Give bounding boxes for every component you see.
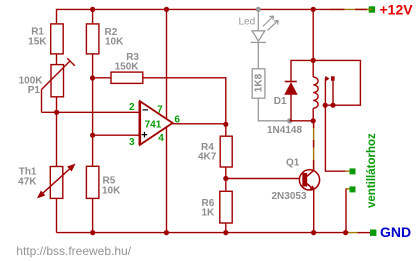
port square GND — [370, 230, 376, 236]
node R2/pin3 — [90, 133, 95, 138]
resistor R5 — [86, 166, 99, 198]
node relay coil bottom — [311, 118, 316, 123]
wire GND rail red segment — [358, 232, 371, 234]
wire olive stub into port — [367, 8, 372, 10]
wire 1K8 bottom (gray) — [258, 98, 289, 121]
wire +12V to relay coil top — [312, 9, 314, 77]
svg-text:150K: 150K — [115, 61, 140, 72]
svg-text:D1: D1 — [274, 96, 287, 107]
svg-text:2N3053: 2N3053 — [272, 191, 307, 202]
wire pin6 output — [173, 123, 226, 125]
resistor 1K8 — [252, 69, 265, 98]
wire relay to Q1 collector olive base — [313, 121, 315, 170]
svg-text:http://bss.freeweb.hu/: http://bss.freeweb.hu/ — [16, 244, 131, 258]
relay contact fixed pin — [332, 81, 334, 106]
node GND rail R6 — [223, 230, 228, 235]
svg-text:15K: 15K — [28, 37, 47, 48]
svg-text:−: − — [142, 105, 148, 117]
wire R3 left — [93, 77, 111, 79]
op-amp U1 741 triangle — [140, 101, 173, 145]
node top rail LED (gray) — [256, 7, 261, 12]
svg-text:Q1: Q1 — [286, 158, 300, 169]
node P1/Th1/pin2 — [54, 110, 59, 115]
wire base node to R6 — [225, 179, 227, 192]
wire inverting input net to pin 2 — [42, 111, 140, 113]
wire +12V rail red dashes over olive — [330, 8, 367, 10]
resistor R1 — [51, 24, 64, 54]
resistor R3 — [111, 72, 143, 83]
wire node to Th1 top — [56, 112, 58, 166]
LED cathode bar — [251, 41, 266, 43]
wire R1 bottom to P1 — [56, 54, 58, 65]
wire Q1 emitter to GND — [313, 190, 315, 233]
wire +12V rail olive segment to port — [330, 8, 370, 10]
wire relay contact common — [313, 60, 360, 105]
transistor Q1 — [299, 170, 319, 190]
thermistor Th1 double arrow — [41, 167, 72, 195]
wire LED top (gray) — [257, 9, 259, 30]
node top rail relay branch — [311, 7, 316, 12]
wire feedback node to R4 — [225, 124, 227, 136]
resistor R4 — [220, 136, 232, 167]
svg-text:Led: Led — [239, 16, 256, 27]
svg-text:2: 2 — [129, 102, 135, 113]
port square ventillatorhoz 2 — [350, 186, 356, 192]
svg-text:GND: GND — [380, 224, 411, 240]
wire GND rail olive segment — [348, 232, 358, 234]
node relay coil top — [311, 58, 316, 63]
potentiometer P1 wiper arrow — [42, 58, 75, 89]
port square +12V — [369, 6, 375, 12]
node gray/D1 anode — [287, 118, 292, 123]
node R2/R3 — [90, 75, 95, 80]
node GND rail port branch — [343, 230, 348, 235]
thermistor Th1 body — [50, 167, 63, 199]
wire op-amp V+ pin7 — [166, 9, 168, 119]
LED triangle — [252, 31, 265, 41]
svg-text:P1: P1 — [28, 85, 41, 96]
wire R5 bottom — [92, 198, 94, 232]
svg-text:47K: 47K — [18, 177, 37, 188]
wire R6 bottom — [225, 223, 227, 233]
wire port 1 olive stub — [346, 170, 350, 172]
node contact left — [323, 103, 328, 108]
wire LED to 1K8 (gray) — [257, 42, 259, 68]
node feedback/output — [223, 122, 228, 127]
port square ventillatorhoz 1 — [350, 168, 356, 174]
wire port 2 to GND rail — [345, 189, 347, 233]
node GND rail Q1 emitter — [311, 230, 316, 235]
svg-text:4: 4 — [158, 133, 164, 144]
wire R3 right to feedback node — [143, 78, 226, 125]
svg-text:1K8: 1K8 — [254, 73, 265, 92]
wire port 2 olive stub — [345, 188, 349, 190]
wire relay coil bottom — [312, 108, 314, 121]
svg-text:1K: 1K — [202, 208, 216, 219]
svg-text:+12V: +12V — [380, 2, 414, 18]
node GND rail R5 — [90, 230, 95, 235]
relay K1 coil — [313, 77, 318, 108]
wire R4 bottom — [225, 167, 227, 179]
node contact right — [330, 103, 335, 108]
resistor R6 — [220, 191, 232, 223]
svg-text:10K: 10K — [102, 186, 121, 197]
node top rail R2 — [90, 7, 95, 12]
svg-text:1N4148: 1N4148 — [267, 125, 302, 136]
wire P1 wiper tail down — [41, 90, 43, 113]
resistor R2 — [86, 24, 99, 54]
wire P1 bottom — [56, 97, 58, 113]
wire op-amp V- pin4 — [166, 128, 168, 233]
wire GND rail — [57, 232, 350, 234]
wire R2 bottom to R5 top — [92, 54, 94, 166]
potentiometer P1 body — [51, 65, 64, 97]
wire contact to port 1 — [325, 105, 345, 171]
wire base — [226, 178, 300, 180]
svg-text:ventillátorhoz: ventillátorhoz — [366, 133, 378, 208]
LED light arrow 2 — [268, 21, 279, 31]
svg-text:3: 3 — [129, 137, 135, 148]
node R4/R6/base — [223, 176, 228, 181]
wire +12V top rail — [57, 9, 331, 24]
svg-text:4K7: 4K7 — [198, 152, 217, 163]
svg-text:10K: 10K — [105, 37, 124, 48]
node GND rail op-amp V- — [164, 230, 169, 235]
LED light arrow 1 — [263, 16, 274, 27]
wire collector red dashes — [313, 121, 315, 170]
diode D1 — [290, 94, 292, 121]
svg-text:7: 7 — [157, 105, 163, 116]
wire D1 anode node to relay node — [290, 120, 314, 122]
node top rail op-amp V+ — [164, 7, 169, 12]
svg-text:+: + — [141, 130, 147, 142]
relay contact moving pin — [324, 78, 326, 105]
wire R2 top — [92, 9, 94, 24]
wire pin3 — [93, 134, 140, 136]
wire Th1 bottom to GND rail — [56, 198, 58, 232]
